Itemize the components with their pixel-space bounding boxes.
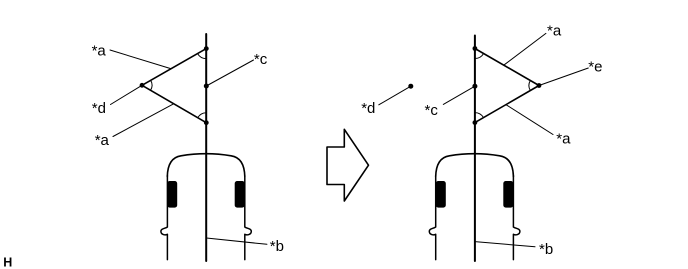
svg-text:*b: *b [270,238,284,255]
callout *a (left bottom) [95,104,174,149]
angle mark at right top junction [475,54,484,59]
svg-text:*d: *d [361,100,375,117]
wire: left triangle bottom edge [142,85,206,122]
svg-text:*c: *c [254,51,268,68]
wire: right triangle top edge [475,49,539,86]
wire: left triangle top edge [142,49,206,86]
callout *d (right, disconnected) [361,86,411,117]
callout *a (right top) [504,23,562,66]
wire: right feeder vertical line [474,36,476,262]
callout *e (right) [539,58,602,85]
callout *b (right) [475,241,553,258]
callout *d (left) [92,85,142,117]
left vehicle roof outline [167,154,245,177]
node: left triangle apex junction [140,83,145,88]
node: right feeder mid junction [472,84,477,89]
angle mark at left bottom junction [198,113,207,118]
node: disconnected feeder dot [408,84,413,89]
angle mark at left top junction [198,54,207,59]
left vehicle left pillar pad [167,181,177,208]
svg-text:*b: *b [539,241,553,258]
left vehicle right pillar pad [235,181,245,208]
svg-text:H: H [3,255,12,269]
angle mark at right apex junction [529,81,530,91]
node: left triangle top junction [204,46,209,51]
angle mark at right bottom junction [475,113,484,118]
left vehicle right side line with hook [245,176,252,260]
wire: left feeder vertical line [205,34,207,261]
wire: right triangle bottom edge [475,86,539,123]
svg-text:*d: *d [92,100,106,117]
callout *b (left) [206,238,284,255]
transition block arrow [327,129,369,201]
svg-text:*a: *a [547,23,562,40]
node: right triangle apex junction [537,83,542,88]
callout *a (left top) [92,43,171,69]
left vehicle left side line with hook [161,176,168,260]
svg-text:*a: *a [95,132,110,149]
svg-text:*c: *c [425,102,439,119]
callout *c (right) [425,86,475,119]
angle mark at left apex junction [151,80,152,90]
right vehicle roof outline [436,154,514,177]
right vehicle right side line with hook [513,176,520,260]
node: left feeder mid junction [204,84,209,89]
svg-text:*a: *a [556,131,571,148]
svg-text:*a: *a [92,43,107,60]
callout *a (right bottom) [506,105,571,148]
node: right triangle bottom junction [473,120,478,125]
right vehicle right pillar pad [503,181,513,208]
right vehicle left pillar pad [436,181,446,208]
right vehicle left side line with hook [429,176,435,260]
svg-text:*e: *e [588,58,602,75]
callout *c (left) [206,51,267,86]
node: right triangle top junction [473,46,478,51]
node: left triangle bottom junction [204,120,209,125]
